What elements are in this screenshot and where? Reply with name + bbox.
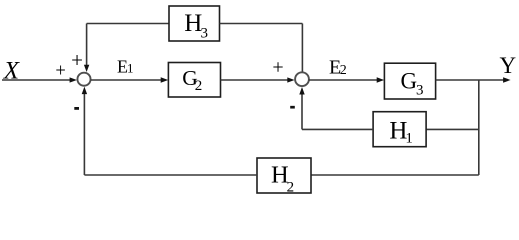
svg-text:2: 2 [195,78,203,94]
wire: horizontal into H3 left [87,23,169,25]
label E2 [329,57,347,79]
label - (H2 feedback at S1) [74,107,79,110]
wire: H3 output down into S1 [84,24,89,73]
svg-text:+: + [55,61,65,81]
svg-text:G: G [401,69,418,94]
wire: bottom feedback right segment to H2 [311,174,479,176]
label + (G2 path at S2) [272,57,283,79]
block H2 [257,158,311,195]
label E1 [117,56,134,76]
svg-text:2: 2 [287,179,295,195]
wire: vertical from H3 wire down to S2 top [301,24,303,73]
wire: pickoff to H1 right [426,128,479,130]
svg-text:1: 1 [405,131,413,147]
wire: H3 right to vertical over S2 [220,23,303,25]
svg-text:1: 1 [127,61,134,76]
svg-text:3: 3 [201,26,209,42]
svg-text:+: + [71,48,83,72]
summing junction S1 [77,73,90,86]
block G3 [384,63,435,99]
label + (H3 input at S1) [71,48,83,72]
wire: G2 to summing junction S2 [221,77,295,82]
block H3 [169,6,220,42]
wire: input X to summing junction S1 [2,77,77,82]
wire: H1 left to below S2 [302,128,373,130]
block G2 [168,63,220,98]
svg-text:Y: Y [500,53,517,78]
svg-text:3: 3 [416,83,424,99]
node Y (output label) [500,53,517,78]
wire: vertical up into S2 bottom [299,87,304,129]
svg-text:2: 2 [340,63,347,78]
label - (H1 feedback at S2) [290,106,295,109]
summing junction S2 [295,72,309,86]
wire: vertical up into S1 bottom [82,87,87,175]
block H1 [373,112,426,147]
wire: S1 to G2 [91,77,169,82]
wire: pickoff vertical from output down to H2 level [478,80,480,175]
svg-text:+: + [272,57,283,79]
wire: G3 to output Y [436,77,511,82]
label + (input X at S1) [55,61,65,81]
node X (input label) [3,57,21,84]
wire: bottom feedback left segment from H2 [84,174,257,176]
wire: S2 to G3 [309,77,384,82]
